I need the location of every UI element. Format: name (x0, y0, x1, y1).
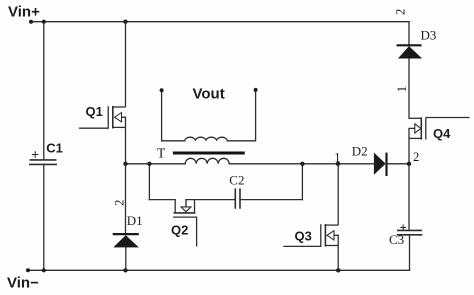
svg-text:Q1: Q1 (86, 104, 103, 119)
node Q1 source / D1 junction (123, 162, 127, 166)
capacitor C1 (29, 141, 63, 165)
wire middle: Q1 source node to loop node (126, 163, 150, 165)
wire loop left vertical (148, 164, 150, 200)
node Q1 drain junction (123, 20, 127, 24)
secondary winding and leads (162, 90, 256, 141)
node 1 Q3 drain junction (336, 162, 340, 166)
wire left rail lower (43, 164, 45, 270)
svg-text:Q2: Q2 (171, 222, 188, 237)
core (173, 152, 245, 155)
node top-left corner junction (42, 20, 46, 24)
wire D3 to Q4 drain (408, 58, 410, 118)
capacitor C2 (229, 173, 244, 209)
node bottom-left junction (42, 268, 46, 272)
svg-text:Vout: Vout (193, 86, 225, 103)
transistor Q2 (171, 200, 197, 247)
svg-text:2: 2 (413, 150, 419, 164)
svg-text:D2: D2 (352, 143, 368, 158)
wire D2 cathode to node 2 (387, 163, 410, 165)
capacitor C2 loop wires (149, 164, 302, 200)
wire middle: Q3 node to D2 anode (338, 163, 374, 165)
wire C3 to bottom rail (409, 235, 411, 270)
diode D2 (352, 143, 419, 176)
wire Q2 to C2 (186, 199, 235, 201)
transformer T (157, 86, 258, 164)
wire top rail (31, 21, 409, 23)
svg-text:Vin+: Vin+ (8, 4, 40, 21)
svg-text:Q3: Q3 (295, 228, 312, 243)
wire node 2 to C3 (408, 164, 410, 230)
svg-text:T: T (157, 146, 166, 161)
wire left rail upper (43, 22, 45, 160)
node loop left junction (147, 162, 151, 166)
diode D1 (113, 164, 143, 270)
capacitor C3 (389, 225, 422, 247)
wire right rail top segment (408, 22, 410, 44)
transistor Q1 (79, 22, 126, 164)
diode D3 (393, 9, 436, 92)
node Vin+ terminal (29, 20, 33, 24)
node Vin- terminal (26, 268, 30, 272)
node loop right junction (300, 162, 304, 166)
wire middle: loop right node to Q3 drain node (302, 163, 337, 165)
svg-text:D3: D3 (421, 28, 437, 43)
primary winding (185, 158, 229, 163)
wire C2 to loop right (240, 199, 302, 201)
svg-text:D1: D1 (127, 213, 143, 228)
wire loop right vertical (301, 164, 303, 200)
node 2 right rail junction (407, 162, 411, 166)
svg-text:C1: C1 (46, 141, 63, 156)
svg-text:Q4: Q4 (433, 126, 451, 141)
svg-text:2: 2 (113, 200, 127, 206)
wire loop bottom left to Q2 (149, 199, 175, 201)
svg-text:2: 2 (393, 9, 407, 15)
svg-text:Vin−: Vin− (7, 274, 39, 291)
svg-text:1: 1 (334, 150, 340, 164)
node secondary left terminal (160, 88, 164, 92)
svg-text:1: 1 (395, 86, 409, 92)
node secondary right terminal (254, 88, 258, 92)
wire Q4 source to node 2 (408, 138, 410, 163)
svg-text:C2: C2 (229, 173, 244, 188)
node D1 anode junction (123, 268, 127, 272)
wire bottom rail (28, 269, 410, 271)
svg-text:C3: C3 (389, 232, 404, 247)
transistor Q4 (409, 117, 470, 141)
wire middle: loop node to primary winding (149, 163, 185, 165)
transistor Q3 (283, 150, 340, 270)
wire middle: winding to loop right node (229, 163, 302, 165)
node Q3 source junction (336, 268, 340, 272)
